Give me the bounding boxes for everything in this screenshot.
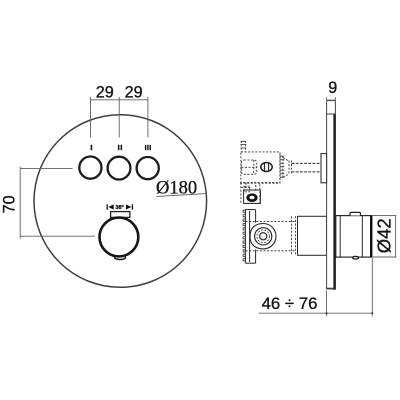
knob top button: [350, 212, 361, 215]
svg-text:38°: 38°: [115, 205, 123, 211]
dim tick dot right: [371, 312, 373, 314]
valve stem (dashed): [292, 163, 322, 172]
upper inlet stub: [241, 141, 247, 152]
dimension 70: [20, 167, 95, 239]
knob collar line: [339, 216, 341, 258]
knob front face (thick): [370, 216, 372, 257]
stem flange on plate: [321, 154, 327, 183]
dimension Ø42: [373, 216, 397, 257]
volume cartridge circles: [255, 228, 272, 245]
faceplate circle: [34, 115, 207, 288]
outlet flange ring: [244, 190, 261, 203]
plate chamfer line: [327, 113, 336, 115]
knob cap line: [361, 216, 363, 258]
knob bottom detail: [353, 256, 359, 259]
button 1: [79, 157, 101, 179]
wall plate: [327, 101, 336, 289]
lower valve body (egg profile): [250, 224, 276, 249]
cartridge serration: [280, 154, 284, 181]
knob bottom tab: [115, 256, 126, 260]
svg-text:9: 9: [328, 79, 337, 97]
svg-text:29: 29: [125, 83, 143, 101]
wall sleeve: [298, 216, 327, 255]
button 3: [137, 157, 159, 179]
dimension 29 29: [91, 97, 148, 138]
knob cylinder: [336, 216, 372, 258]
outlet port below upper body: [240, 183, 280, 204]
dimension 9: [327, 97, 336, 103]
dimension 46÷76: [259, 258, 373, 316]
lower valve flange serration: [243, 210, 245, 261]
dim tick dot left: [326, 312, 328, 314]
knob circle: [100, 218, 139, 257]
knob top tab: [111, 212, 130, 218]
svg-text:70: 70: [1, 195, 19, 213]
svg-text:29: 29: [96, 83, 114, 101]
cartridge screw oval: [261, 163, 272, 172]
upper valve body (hidden, dashed): [241, 152, 280, 183]
plate front edge (thick): [333, 114, 335, 290]
hidden lines body to sleeve: [246, 216, 302, 255]
svg-text:Ø42: Ø42: [374, 218, 395, 253]
38° right arrow: [126, 204, 132, 209]
dimension Ø180 leader: [157, 194, 207, 197]
plate bottom inner line: [327, 287, 335, 289]
button labels I II III: [91, 145, 151, 150]
svg-text:Ø180: Ø180: [156, 178, 197, 198]
svg-text:46 ÷ 76: 46 ÷ 76: [262, 294, 318, 313]
button 2: [108, 157, 131, 180]
cartridge neck (dashed trapezoid): [283, 158, 292, 178]
lower valve flange: [245, 210, 255, 264]
38° left arrow: [107, 204, 114, 209]
